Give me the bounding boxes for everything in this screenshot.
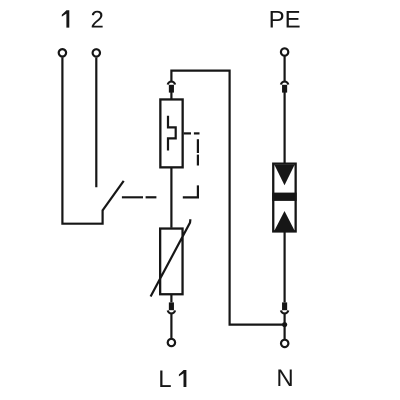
plug-in connector PE: socket arc xyxy=(281,82,288,85)
dashed mechanical linkage top dash f xyxy=(194,132,200,134)
dashed mechanical linkage corner xyxy=(183,185,198,197)
dashed mechanical linkage top dash e xyxy=(184,132,191,134)
svg-text:L: L xyxy=(158,366,171,393)
terminal L1 xyxy=(168,339,175,346)
terminal 2 xyxy=(93,49,100,56)
svg-text:2: 2 xyxy=(91,6,104,33)
wire varistor to L1 connector xyxy=(170,294,172,302)
terminal PE xyxy=(281,48,288,55)
wire N connector to terminal N xyxy=(284,314,286,339)
wire pin to disconnector box xyxy=(170,93,172,100)
plug-in connector bottom L1: pin xyxy=(169,302,174,310)
spark gap bottom electrode triangle xyxy=(274,211,294,231)
svg-text:N: N xyxy=(276,365,293,392)
spark gap top electrode triangle xyxy=(274,165,294,186)
dashed mechanical linkage vertical dash c xyxy=(197,155,199,166)
thermal disconnector F1 box xyxy=(160,99,182,167)
label terminal L1 digit xyxy=(179,370,187,387)
dashed mechanical linkage vertical dash d xyxy=(197,139,199,153)
plug-in connector bottom L1: socket arc xyxy=(168,310,175,313)
terminal N xyxy=(281,340,288,347)
wire disconnector top to N junction (bypass) xyxy=(171,71,284,325)
wire disconnector to varistor xyxy=(170,167,172,227)
terminal 1 xyxy=(59,49,66,56)
plug-in connector top of disconnector: pin xyxy=(169,85,174,93)
wire terminal PE down xyxy=(284,57,286,82)
plug-in connector N: pin xyxy=(282,302,287,310)
svg-text:PE: PE xyxy=(269,6,301,33)
varistor RV1 box xyxy=(160,229,182,295)
wire spark gap to N connector xyxy=(284,232,286,303)
isolating spark gap F2 box xyxy=(273,164,295,232)
wire terminal 1 to switch pivot xyxy=(62,58,102,224)
dashed mechanical linkage left dash b xyxy=(146,196,157,198)
wire terminal 2 fixed contact xyxy=(95,58,97,188)
wire connector to terminal L1 xyxy=(170,314,172,339)
switch blade S1 xyxy=(103,181,124,211)
plug-in connector PE: pin xyxy=(282,85,287,93)
plug-in connector N: socket arc xyxy=(281,310,288,313)
thermal disconnector step symbol xyxy=(168,116,176,151)
dashed mechanical linkage left dash a xyxy=(122,196,143,198)
spark gap middle bar xyxy=(272,193,297,201)
wire PE connector to spark gap xyxy=(284,93,286,164)
label terminal 1 xyxy=(62,10,70,27)
varistor diagonal xyxy=(151,219,191,296)
plug-in connector top of disconnector: socket arc xyxy=(168,82,175,85)
junction node N xyxy=(282,322,287,327)
